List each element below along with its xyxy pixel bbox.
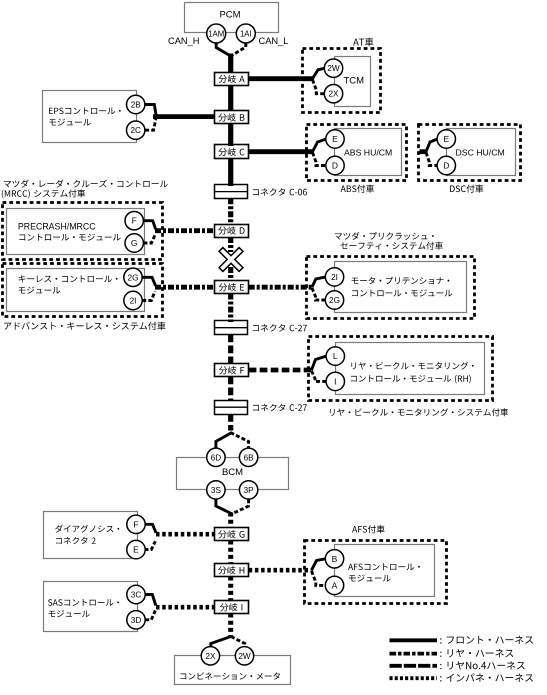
pin 2B	[127, 95, 145, 113]
svg-text:CAN_L: CAN_L	[259, 36, 289, 46]
label アドバンスト・キーレス・システム付車	[4, 322, 165, 330]
svg-text:3P: 3P	[244, 486, 255, 495]
wire branch F to rear vehicle monitoring (rear No.4 harness, long dash)	[249, 368, 313, 373]
wire trunk branch F to connector C-27 lower (rear No.4 harness)	[228, 377, 233, 402]
svg-text:6B: 6B	[244, 453, 255, 462]
wire elbow SAS 3C (solid)	[145, 595, 156, 606]
svg-text:A: A	[332, 580, 338, 590]
svg-text:L: L	[333, 351, 338, 361]
svg-text:D: D	[443, 161, 449, 171]
module AFS control module	[335, 545, 435, 597]
wire elbow AFS A (dashed)	[312, 571, 326, 585]
system box DSC (dashed)	[419, 125, 521, 181]
wire branch E to pretensioner (rear harness, dash-dot)	[249, 285, 313, 290]
legend rear harness (dash-dot)	[390, 649, 514, 657]
pin E (DSC)	[437, 130, 455, 148]
pin B (AFS)	[325, 550, 343, 568]
svg-text:B: B	[332, 554, 338, 564]
branch box 分岐 H	[215, 564, 249, 577]
connector C-27 lower	[214, 401, 248, 415]
pin E (diagnosis)	[127, 540, 145, 558]
svg-text:D: D	[332, 161, 338, 171]
wire elbow ABS E (solid)	[313, 139, 327, 152]
wire CAN_L PCM 1AI to branch-A trunk (dashed)	[232, 43, 245, 55]
svg-text:2X: 2X	[328, 90, 339, 99]
svg-text:6D: 6D	[211, 453, 222, 462]
pin 2I (keyless)	[124, 291, 142, 309]
module PRECRASH/MRCC control module	[7, 209, 145, 255]
svg-text:PCM: PCM	[219, 10, 240, 21]
pin F (PRECRASH)	[125, 212, 143, 230]
pin A (AFS)	[325, 576, 343, 594]
svg-text:F: F	[133, 519, 138, 529]
wire trunk connector C-06 to branch D (rear harness, dash-dot)	[228, 198, 233, 225]
svg-text:2I: 2I	[331, 273, 338, 282]
wire PRECRASH to branch D (rear harness, dash-dot)	[155, 228, 215, 233]
pin F (diagnosis)	[127, 515, 145, 533]
module TCM	[335, 57, 371, 107]
label コネクタ C-27 upper	[253, 324, 307, 331]
splice X (harness crossing)	[211, 239, 251, 279]
pin 3S	[207, 481, 225, 499]
pin 3D	[127, 611, 145, 629]
module EPS control module	[43, 91, 137, 143]
wire elbow BCM 6D (solid)	[216, 433, 232, 450]
wire elbow DSC D (dashed)	[426, 153, 437, 166]
legend instrument panel harness (dotted)	[390, 673, 534, 681]
svg-text:1AM: 1AM	[208, 29, 224, 38]
svg-text:BCM: BCM	[222, 467, 243, 478]
pin 2W (combination meter)	[235, 647, 253, 665]
label ABS付車	[341, 185, 375, 193]
wire elbow RVM L (solid)	[312, 356, 327, 370]
wire keyless to branch E (rear harness, dash-dot)	[155, 285, 215, 290]
system box AFS (dashed)	[305, 541, 447, 604]
pin I (RVM)	[326, 372, 344, 390]
branch box 分岐 D	[215, 225, 249, 238]
system box AT (dashed)	[303, 49, 381, 113]
wire EPS to branch B (front harness, solid)	[153, 114, 215, 119]
branch box 分岐 A	[215, 73, 249, 86]
wire elbow EPS 2C (dashed)	[145, 119, 156, 130]
wire trunk branch C to connector C-06 (front harness)	[228, 158, 233, 186]
module combination meter	[175, 656, 291, 685]
pin 6B	[239, 448, 257, 466]
label マツダ・プリクラッシュ・セーフティ・システム付車	[335, 232, 443, 250]
wire elbow RVM I (dashed)	[312, 371, 327, 382]
wire trunk branch B to branch C (front harness)	[228, 124, 233, 147]
svg-text:G: G	[131, 238, 138, 248]
wire elbow PRECRASH G (dashed)	[143, 235, 155, 243]
pin 2G (keyless)	[124, 268, 142, 286]
wire trunk splice X to branch E (rear harness, dash-dot)	[228, 267, 233, 281]
pin 2I (pretensioner)	[325, 268, 343, 286]
pin 2X	[324, 85, 342, 103]
connector C-06	[214, 185, 248, 199]
wire trunk branch G to branch H (instrument panel harness, dotted)	[228, 541, 233, 565]
module DSC HU/CM	[447, 129, 516, 176]
wire branch H to AFS (instrument panel harness, dotted)	[249, 568, 312, 573]
pin 3C	[127, 585, 145, 603]
wire elbow keyless 2G (solid)	[142, 277, 155, 286]
svg-text:2G: 2G	[329, 296, 340, 305]
system box pretensioner (dashed)	[307, 257, 475, 319]
pin 6D	[207, 448, 225, 466]
wire elbow EPS 2B (solid)	[145, 105, 156, 115]
pin D (ABS)	[326, 156, 344, 174]
pin 2C	[127, 121, 145, 139]
branch box 分岐 B	[215, 111, 249, 124]
wire trunk BCM to branch G (instrument panel harness, dotted)	[228, 513, 233, 529]
wire CAN_H PCM 1AM to branch-A trunk (front harness, solid)	[216, 43, 230, 56]
wire elbow to TCM 2X (dashed)	[313, 80, 325, 94]
wire elbow combination meter 2X (solid)	[211, 636, 232, 647]
pin G (PRECRASH)	[125, 234, 143, 252]
system box ABS (dashed)	[307, 125, 407, 181]
wire elbow keyless 2I (dashed)	[142, 291, 155, 300]
wire elbow DSC E (solid)	[426, 139, 437, 152]
pin 2X (combination meter)	[201, 647, 219, 665]
svg-text:3C: 3C	[131, 591, 142, 600]
wire trunk branch D to splice X (rear harness, dash-dot)	[228, 237, 233, 252]
wire elbow combination meter 2W (dashed)	[231, 637, 245, 648]
module BCM	[177, 458, 289, 490]
svg-text:2W: 2W	[238, 652, 251, 661]
wire elbow pretensioner 2I (solid)	[312, 277, 326, 287]
pin 1AI	[236, 24, 255, 43]
svg-text:2G: 2G	[128, 273, 139, 282]
wire trunk connector C-27 to BCM (rear No.4 harness)	[228, 414, 233, 431]
svg-text:2I: 2I	[130, 297, 137, 306]
pin D (DSC)	[437, 156, 455, 174]
svg-text:E: E	[332, 134, 338, 144]
module ABS HU/CM	[335, 129, 402, 176]
wire elbow ABS D (dashed)	[313, 153, 327, 166]
legend rear No.4 harness (long dash)	[390, 661, 525, 669]
wire trunk branch I to combination meter (instrument panel harness, dotted)	[228, 614, 233, 638]
legend front harness (solid)	[390, 636, 534, 644]
pin E (ABS)	[326, 130, 344, 148]
label リヤ・ビークル・モニタリング・システム付車	[330, 408, 508, 416]
module keyless control module	[3, 264, 163, 317]
wire branch C to ABS (front harness, solid)	[249, 149, 314, 154]
wire diagnosis to branch G (instrument panel harness, dotted)	[156, 532, 215, 537]
label DSC付車	[450, 185, 483, 193]
wire trunk connector C-27 to branch F (rear No.4 harness, long dash)	[228, 335, 233, 365]
branch box 分岐 I	[215, 601, 249, 614]
wire elbow diagnosis E (dashed)	[145, 541, 156, 549]
wire branch A to TCM (front harness, solid)	[249, 76, 314, 81]
label マツダ・レーダ・クルーズ・コントロール (MRCC)システム付車	[2, 180, 168, 199]
svg-text:PRECRASH/MRCC: PRECRASH/MRCC	[18, 221, 96, 231]
pin 2G (pretensioner)	[325, 291, 343, 309]
wire elbow diagnosis F (solid)	[145, 524, 157, 533]
module diagnosis connector 2	[44, 512, 138, 559]
module rear vehicle monitoring control module (RH)	[336, 343, 485, 395]
branch box 分岐 E	[215, 281, 249, 294]
svg-text:2B: 2B	[131, 101, 142, 110]
branch box 分岐 G	[215, 528, 249, 541]
pin 1AM	[207, 24, 226, 43]
svg-text:3S: 3S	[211, 486, 222, 495]
pin 2W	[324, 59, 342, 77]
label コネクタ C-27 lower	[253, 404, 307, 411]
wire trunk PCM to branch A (front harness)	[228, 54, 233, 74]
module motor pretensioner control module	[335, 262, 467, 313]
svg-text:I: I	[334, 376, 336, 386]
svg-text:2X: 2X	[205, 652, 216, 661]
svg-text:CAN_H: CAN_H	[168, 36, 200, 46]
svg-text:1AI: 1AI	[240, 29, 252, 38]
svg-text:F: F	[132, 216, 137, 226]
branch box 分岐 F	[215, 364, 249, 377]
svg-text:TCM: TCM	[344, 76, 365, 87]
svg-text:2W: 2W	[327, 64, 340, 73]
pin 3P	[239, 481, 257, 499]
branch box 分岐 C	[215, 145, 249, 159]
module PCM	[185, 3, 279, 33]
module SAS control module	[44, 582, 138, 632]
wire elbow PRECRASH F (solid)	[143, 221, 155, 230]
svg-text:3D: 3D	[131, 616, 142, 625]
wire trunk branch A to branch B (front harness)	[228, 85, 233, 111]
label AT車	[353, 38, 373, 47]
wire elbow AFS B (solid)	[312, 559, 326, 570]
wire trunk branch H to branch I (instrument panel harness, dotted)	[228, 577, 233, 602]
svg-text:E: E	[133, 545, 139, 555]
wire elbow SAS 3D (dashed)	[145, 611, 155, 620]
label AFS付車	[352, 525, 385, 533]
wire trunk branch E to connector C-27 (rear harness, dash-dot)	[228, 294, 233, 323]
pin L (RVM)	[326, 347, 344, 365]
wire elbow BCM 6B (dashed)	[230, 433, 248, 450]
wire elbow to TCM 2W (solid)	[313, 68, 325, 79]
wire SAS to branch I (instrument panel harness, dotted)	[156, 605, 215, 610]
wire elbow BCM 3P to trunk (dashed)	[232, 499, 249, 514]
svg-text:ABS HU/CM: ABS HU/CM	[344, 148, 392, 158]
svg-text:2C: 2C	[130, 126, 141, 135]
wire DSC stub (front harness, solid)	[420, 149, 428, 154]
svg-text:E: E	[443, 134, 449, 144]
system box rear vehicle monitoring (dashed)	[309, 337, 493, 401]
wire elbow pretensioner 2G (dashed)	[312, 288, 326, 300]
connector C-27 upper	[214, 321, 248, 335]
system box MRCC (dashed)	[3, 203, 163, 260]
svg-text:DSC HU/CM: DSC HU/CM	[456, 148, 505, 158]
wire elbow BCM 3S to trunk (solid)	[216, 499, 232, 514]
label コネクタ C-06	[253, 188, 307, 195]
